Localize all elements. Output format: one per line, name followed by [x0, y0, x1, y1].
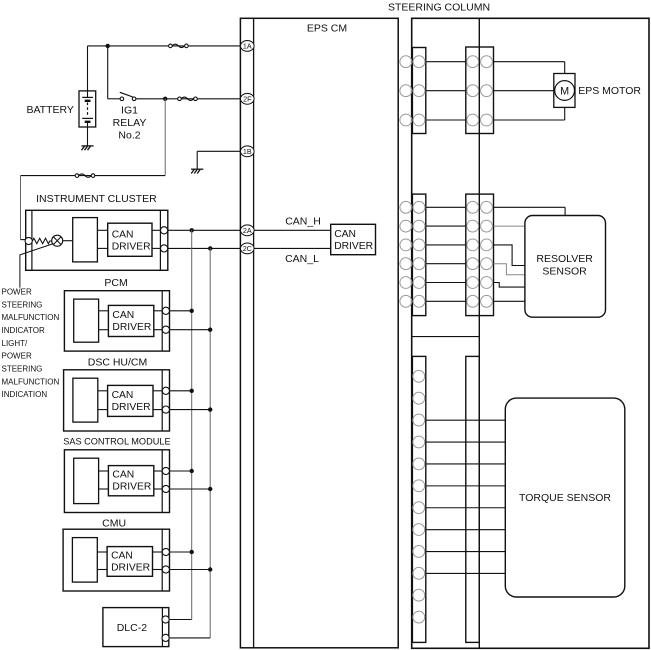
PCM CAN DRIVER box — [108, 305, 153, 336]
svg-text:2F: 2F — [243, 94, 252, 103]
wire motor V — [494, 90, 554, 92]
wire CAN_L bus vertical — [209, 248, 211, 638]
node CAN_H bus junction at cluster — [190, 228, 194, 232]
svg-text:DRIVER: DRIVER — [112, 241, 151, 252]
wire relay to pin 2F — [136, 98, 241, 100]
node CAN_H junction SAS CONTROL MODULE — [190, 469, 194, 473]
DSC HU/CM terminal circle H — [162, 387, 169, 394]
wires between resolver connector blocks — [426, 206, 466, 208]
cluster terminal circle H — [161, 227, 168, 234]
PCM connector strip line — [161, 291, 163, 351]
PCM terminal circle L — [162, 326, 169, 333]
svg-text:LIGHT/: LIGHT/ — [2, 339, 29, 348]
svg-text:CMU: CMU — [102, 518, 126, 530]
pin 1A on EPS CM — [241, 41, 255, 52]
svg-text:STEERING COLUMN: STEERING COLUMN — [388, 1, 490, 13]
wires between motor connector blocks — [426, 61, 466, 63]
wire CAN_L cluster to pin 2C — [168, 247, 241, 249]
ground 1B — [191, 168, 203, 170]
svg-text:CAN: CAN — [112, 310, 134, 321]
pin 1B on EPS CM — [241, 146, 255, 157]
DLC-2 box — [103, 608, 169, 647]
svg-text:BATTERY: BATTERY — [26, 104, 73, 116]
node CAN_L bus junction at cluster — [208, 246, 212, 250]
svg-text:SAS CONTROL MODULE: SAS CONTROL MODULE — [63, 437, 170, 447]
EPS CAN DRIVER box — [331, 224, 376, 254]
battery dashed center line — [87, 103, 89, 117]
CMU wire block to driver H — [97, 551, 107, 553]
motor M circle — [555, 81, 575, 101]
DSC HU/CM CAN DRIVER box — [108, 385, 153, 416]
svg-text:EPS CM: EPS CM — [307, 23, 347, 35]
svg-text:DSC HU/CM: DSC HU/CM — [88, 357, 148, 369]
connector pin circles motor left block — [400, 56, 412, 68]
fuse on 2F wire — [178, 97, 182, 101]
PCM box — [64, 291, 169, 351]
svg-text:DRIVER: DRIVER — [334, 241, 373, 252]
SAS CONTROL MODULE inner block — [74, 458, 99, 503]
svg-text:EPS MOTOR: EPS MOTOR — [578, 85, 641, 97]
CMU CAN DRIVER box — [107, 547, 152, 577]
PCM wire block to driver H — [99, 310, 109, 312]
connector block column side (resolver wires) — [466, 194, 494, 316]
wire CAN_H bus vertical — [191, 230, 193, 619]
svg-text:CAN: CAN — [112, 229, 134, 240]
PCM wire to CAN_L bus — [169, 329, 210, 331]
indicator bulb lamp — [52, 235, 63, 246]
PCM wire block to driver L — [99, 329, 109, 331]
cluster inner block — [73, 218, 98, 262]
DSC HU/CM terminal circle L — [162, 406, 169, 413]
SAS CONTROL MODULE wire to CAN_H bus — [169, 470, 191, 472]
wire CAN_H bus into DLC-2 — [169, 619, 192, 621]
svg-text:INDICATION: INDICATION — [2, 390, 48, 399]
wire battery positive to pin 1A — [88, 45, 241, 47]
DLC-2 strip line — [161, 608, 163, 647]
SAS CONTROL MODULE box — [64, 450, 169, 513]
DSC HU/CM wire block to driver H — [98, 390, 108, 392]
wire resolver 4 — [494, 264, 525, 275]
resistor in cluster — [32, 238, 51, 243]
node CAN_H junction PCM — [190, 309, 194, 313]
ground battery — [81, 145, 93, 147]
wire fuse row to cluster — [21, 175, 166, 177]
node CAN_H junction DSC HU/CM — [190, 389, 194, 393]
svg-text:CAN: CAN — [334, 229, 356, 240]
wire column shield link — [412, 336, 480, 338]
wire CAN_H cluster to pin 2A — [168, 229, 241, 231]
CMU inner block — [72, 538, 97, 583]
DLC-2 terminal circle H — [162, 616, 169, 623]
DSC HU/CM wire to CAN_H bus — [169, 390, 191, 392]
svg-text:CAN: CAN — [111, 550, 133, 561]
battery plate short bottom — [85, 121, 91, 123]
wire battery top vertical — [87, 46, 89, 98]
svg-text:DRIVER: DRIVER — [112, 322, 151, 333]
PCM terminal circle H — [162, 307, 169, 314]
wire pin 1B to ground — [197, 150, 240, 152]
SAS CONTROL MODULE CAN DRIVER box — [108, 466, 153, 496]
wire cluster block to driver L — [97, 247, 107, 249]
wire junction down to relay — [107, 46, 109, 99]
connector block column side (motor wires) — [466, 47, 494, 134]
CMU terminal circle L — [162, 566, 169, 573]
svg-text:No.2: No.2 — [118, 129, 140, 141]
node junction on 2F wire — [163, 97, 167, 101]
DLC-2 terminal circle L — [162, 634, 169, 641]
wire motor W — [494, 119, 565, 121]
CMU terminal circle H — [162, 548, 169, 555]
svg-text:2C: 2C — [243, 244, 252, 253]
wire resolver 2 — [494, 225, 525, 227]
wire bulb to cluster block — [63, 240, 73, 242]
connector block EPS-CM to column (resolver wires) — [412, 194, 425, 316]
svg-text:MALFUNCTION: MALFUNCTION — [2, 313, 60, 322]
svg-text:STEERING: STEERING — [2, 300, 43, 309]
node junction on 1A wire — [106, 44, 110, 48]
steering column inner boundary line — [478, 18, 480, 648]
cluster right strip line — [159, 210, 161, 270]
fuse on cluster supply wire — [75, 174, 79, 178]
svg-text:CAN_L: CAN_L — [285, 253, 319, 265]
node CAN_L junction SAS CONTROL MODULE — [208, 487, 212, 491]
CMU wire driver to terminal H — [153, 551, 163, 553]
svg-text:DRIVER: DRIVER — [111, 562, 150, 573]
svg-text:CAN: CAN — [112, 390, 134, 401]
SAS CONTROL MODULE terminal circle L — [162, 485, 169, 492]
CMU wire driver to terminal L — [153, 569, 163, 571]
connector pin circles motor right block — [467, 56, 479, 68]
svg-text:1A: 1A — [243, 42, 252, 51]
battery plate short top — [85, 100, 91, 102]
svg-text:INSTRUMENT CLUSTER: INSTRUMENT CLUSTER — [36, 193, 157, 205]
svg-text:IG1: IG1 — [121, 104, 138, 116]
cluster terminal circle L — [161, 245, 168, 252]
pointer line to malfunction text — [20, 244, 53, 288]
fuse on 1A wire — [169, 44, 173, 48]
svg-text:1B: 1B — [243, 147, 252, 156]
wire resolver 3 — [494, 245, 525, 266]
CMU wire to CAN_L bus — [169, 569, 210, 571]
INSTRUMENT CLUSTER box — [26, 210, 168, 270]
wire cluster block to driver H — [97, 229, 107, 231]
SAS CONTROL MODULE wire block to driver H — [99, 470, 109, 472]
SAS CONTROL MODULE wire driver to terminal H — [154, 470, 162, 472]
svg-text:INDICATOR: INDICATOR — [2, 326, 45, 335]
DSC HU/CM wire driver to terminal H — [153, 390, 162, 392]
wire pin 2A to EPS CAN driver — [254, 229, 331, 231]
pin 2A on EPS CM — [241, 225, 255, 236]
wire CAN_L bus into DLC-2 — [169, 637, 210, 639]
DSC HU/CM connector strip line — [161, 370, 163, 431]
node CAN_L junction PCM — [208, 328, 212, 332]
wire battery negative down — [87, 122, 89, 146]
svg-text:SENSOR: SENSOR — [542, 266, 587, 278]
svg-text:POWER: POWER — [2, 352, 32, 361]
battery plate long bottom — [82, 117, 93, 119]
relay IG1 switch blade — [120, 92, 133, 97]
svg-text:PCM: PCM — [104, 277, 127, 289]
EPS motor box — [554, 74, 575, 108]
svg-text:DRIVER: DRIVER — [112, 482, 151, 493]
EPS CM connector strip line — [253, 18, 255, 648]
wire into cluster terminal — [21, 239, 26, 241]
cluster left strip line — [31, 210, 33, 270]
svg-text:CAN: CAN — [112, 470, 134, 481]
pin 2F on EPS CM — [241, 93, 255, 104]
PCM inner block — [74, 299, 99, 342]
svg-text:M: M — [560, 85, 569, 97]
CMU box — [63, 529, 169, 591]
wire driver to terminal L — [152, 247, 161, 249]
torque harness duct — [466, 356, 480, 642]
STEERING COLUMN box — [412, 18, 649, 648]
wire motor U — [494, 61, 565, 63]
svg-text:DRIVER: DRIVER — [112, 402, 151, 413]
SAS CONTROL MODULE connector strip line — [161, 450, 163, 513]
wire down left side to cluster — [20, 176, 22, 240]
RESOLVER SENSOR box — [525, 216, 606, 318]
connector pin circles torque block — [413, 370, 425, 382]
battery plate long top — [82, 96, 93, 98]
svg-text:TORQUE SENSOR: TORQUE SENSOR — [519, 492, 611, 504]
DSC HU/CM wire driver to terminal L — [153, 409, 162, 411]
CMU wire block to driver L — [97, 569, 107, 571]
relay IG1 contact circles — [120, 97, 124, 101]
svg-text:POWER: POWER — [2, 287, 32, 296]
svg-text:MALFUNCTION: MALFUNCTION — [2, 377, 60, 386]
wire 1B ground vertical — [196, 151, 198, 169]
DSC HU/CM inner block — [73, 378, 98, 422]
cluster terminal circle left — [25, 237, 32, 244]
connector pin circles resolver right block — [467, 201, 479, 213]
DSC HU/CM wire to CAN_L bus — [169, 409, 210, 411]
wire 2F junction down — [164, 99, 166, 176]
PCM wire driver to terminal L — [154, 329, 162, 331]
pin 2C on EPS CM — [241, 243, 255, 254]
SAS CONTROL MODULE terminal circle H — [162, 467, 169, 474]
wires torque sensor — [426, 419, 506, 421]
connector block EPS-CM to column (motor wires) — [412, 48, 425, 134]
wire driver to terminal H — [152, 229, 161, 231]
SAS CONTROL MODULE wire to CAN_L bus — [169, 488, 210, 490]
EPS CM box — [240, 18, 398, 648]
DSC HU/CM box — [64, 370, 170, 431]
cluster CAN DRIVER box — [108, 223, 152, 256]
wire resolver 5 — [494, 283, 525, 288]
svg-text:RELAY: RELAY — [113, 117, 147, 129]
PCM wire to CAN_H bus — [169, 310, 191, 312]
wire pin 2C to EPS CAN driver — [254, 247, 331, 249]
battery B+ box — [79, 91, 96, 127]
CMU wire to CAN_H bus — [169, 551, 191, 553]
wire to relay contact — [108, 98, 120, 100]
TORQUE SENSOR box — [505, 398, 625, 597]
SAS CONTROL MODULE wire driver to terminal L — [154, 488, 162, 490]
CMU connector strip line — [161, 529, 163, 591]
node CAN_H junction CMU — [190, 550, 194, 554]
SAS CONTROL MODULE wire block to driver L — [99, 488, 109, 490]
svg-text:RESOLVER: RESOLVER — [536, 253, 593, 265]
DSC HU/CM wire block to driver L — [98, 409, 108, 411]
wire resolver 1 — [494, 206, 566, 208]
svg-text:CAN_H: CAN_H — [285, 215, 321, 227]
svg-text:2A: 2A — [243, 226, 252, 235]
svg-text:STEERING: STEERING — [2, 365, 43, 374]
wire resolver 6 — [494, 300, 525, 302]
node CAN_L junction CMU — [208, 567, 212, 571]
svg-text:DLC-2: DLC-2 — [117, 622, 148, 634]
node CAN_L junction DSC HU/CM — [208, 407, 212, 411]
connector pin circles resolver left block — [400, 201, 412, 213]
connector block torque (EPS-CM side) — [412, 356, 425, 642]
PCM wire driver to terminal H — [154, 310, 162, 312]
